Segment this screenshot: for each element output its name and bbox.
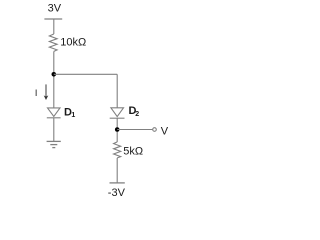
svg-text:5kΩ: 5kΩ bbox=[123, 146, 143, 158]
svg-text:1: 1 bbox=[71, 112, 75, 119]
svg-text:I: I bbox=[35, 88, 38, 98]
svg-text:V: V bbox=[161, 125, 169, 137]
svg-text:2: 2 bbox=[135, 111, 139, 118]
svg-text:10kΩ: 10kΩ bbox=[60, 37, 86, 49]
svg-text:3V: 3V bbox=[48, 2, 62, 14]
svg-text:-3V: -3V bbox=[108, 187, 126, 199]
